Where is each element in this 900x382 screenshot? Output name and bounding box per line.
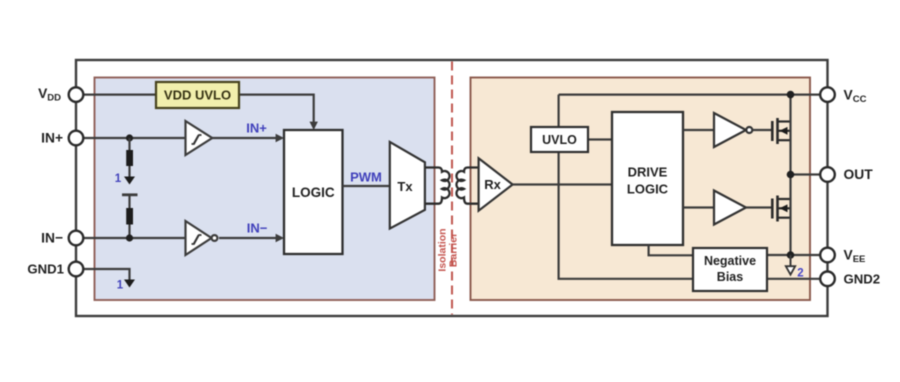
wire: LOGIC to Tx (PWM) <box>343 185 391 187</box>
resistor (IN+ pulldown) <box>128 138 130 150</box>
wire: UVLO right to DRIVE LOGIC <box>588 138 612 140</box>
svg-text:IN−: IN− <box>41 231 63 246</box>
wire: buffer to top MOSFET gate <box>752 129 772 131</box>
outer device boundary box <box>76 60 828 316</box>
svg-text:VEE: VEE <box>844 248 866 266</box>
primary-side shaded region (blue) <box>95 78 435 301</box>
input buffer (IN- inverting Schmitt trigger) <box>186 221 218 255</box>
svg-text:Negative: Negative <box>704 254 756 268</box>
bottom MOSFET Q2 <box>772 196 790 222</box>
node: VCC rail junction <box>787 91 795 99</box>
arrowhead into LOGIC top <box>310 122 318 130</box>
wire: buffer to LOGIC (IN-) <box>219 237 282 239</box>
pin VDD <box>69 87 84 102</box>
transformer secondary winding <box>456 168 480 204</box>
wire: IN- pin to buffer <box>83 237 186 239</box>
svg-text:1: 1 <box>117 280 124 292</box>
svg-text:Rx: Rx <box>484 177 501 192</box>
wire: DRIVE LOGIC to top driver buffer <box>683 129 714 131</box>
bottom driver buffer <box>714 191 746 225</box>
resistor (IN- pullup) <box>126 208 133 225</box>
svg-text:VDD UVLO: VDD UVLO <box>164 88 231 103</box>
top MOSFET Q1 <box>772 118 790 144</box>
pin VEE <box>820 248 835 263</box>
ground 2 symbol <box>790 255 792 266</box>
svg-text:1: 1 <box>115 173 122 185</box>
VDD UVLO box <box>156 82 239 108</box>
wire: VEE line <box>767 254 821 256</box>
UVLO box <box>531 127 588 152</box>
pin VCC <box>820 87 835 102</box>
wire: UVLO top to VCC rail <box>557 95 559 127</box>
pin GND1 <box>69 262 84 277</box>
svg-text:UVLO: UVLO <box>542 133 577 147</box>
pin IN- <box>69 231 84 246</box>
wire: buffer to LOGIC (IN+) <box>212 137 282 139</box>
node: OUT junction <box>787 171 795 179</box>
svg-text:LOGIC: LOGIC <box>627 182 669 197</box>
pin OUT <box>820 167 835 182</box>
DRIVE LOGIC box <box>612 112 683 245</box>
isolation barrier label <box>437 228 460 271</box>
wire: UVLO bottom down to GND2 rail <box>559 152 693 279</box>
ground arrow 1 (below IN+ resistor) <box>128 166 130 178</box>
input buffer (IN+ Schmitt trigger) <box>186 121 213 155</box>
wire: top MOSFET drain-source rail (VCC to OUT) <box>789 95 791 175</box>
node on IN- line <box>126 234 133 241</box>
svg-text:Barrier: Barrier <box>448 233 460 267</box>
Rx receiver triangle <box>479 158 513 210</box>
Tx transmitter trapezoid <box>390 142 425 229</box>
wire: Rx to DRIVE LOGIC <box>513 183 612 185</box>
svg-text:VDD: VDD <box>38 86 61 104</box>
svg-text:Bias: Bias <box>717 270 743 284</box>
LOGIC box <box>284 130 343 254</box>
isolation barrier dashed line <box>451 62 453 315</box>
transformer primary winding <box>426 168 450 204</box>
svg-text:VCC: VCC <box>844 88 867 106</box>
svg-text:2: 2 <box>797 268 803 280</box>
wire: IN+ pin to buffer <box>83 137 186 139</box>
pin IN+ <box>69 131 84 146</box>
svg-text:IN+: IN+ <box>41 131 63 146</box>
Negative Bias box <box>693 248 767 291</box>
node on IN+ line <box>126 134 133 141</box>
supply bar (IN- pullup rail) <box>122 193 138 196</box>
secondary-side shaded region (tan) <box>471 78 811 301</box>
svg-text:IN+: IN+ <box>246 121 267 136</box>
pin GND2 <box>820 272 835 287</box>
wire: VDD UVLO to LOGIC top (with corner) <box>239 95 314 128</box>
svg-text:DRIVE: DRIVE <box>628 165 668 180</box>
arrowhead into LOGIC (IN-) <box>276 234 284 243</box>
wire: GND1 pin with ground arrow 1 <box>83 269 130 280</box>
wire: VCC top rail <box>559 93 821 95</box>
svg-text:GND2: GND2 <box>844 272 881 287</box>
svg-text:OUT: OUT <box>844 167 874 182</box>
svg-text:GND1: GND1 <box>27 262 64 277</box>
svg-text:PWM: PWM <box>350 170 382 185</box>
node: VEE junction <box>787 251 795 259</box>
wire: DRIVE LOGIC to bottom driver buffer <box>683 206 714 208</box>
svg-text:LOGIC: LOGIC <box>292 185 335 200</box>
svg-text:IN−: IN− <box>247 221 268 236</box>
wire: bottom MOSFET drain-source rail (OUT to VEE) <box>789 175 791 256</box>
svg-text:Tx: Tx <box>397 179 413 194</box>
wire: DRIVE LOGIC bottom to Negative Bias <box>649 245 693 255</box>
top driver buffer (inverting) <box>714 113 752 147</box>
wire: OUT line <box>791 173 821 175</box>
wire: GND2 line <box>767 278 821 280</box>
arrowhead into LOGIC (IN+) <box>276 134 284 143</box>
wire: buffer to bottom MOSFET gate <box>746 206 772 208</box>
wire: VDD pin to VDD UVLO <box>83 93 156 95</box>
